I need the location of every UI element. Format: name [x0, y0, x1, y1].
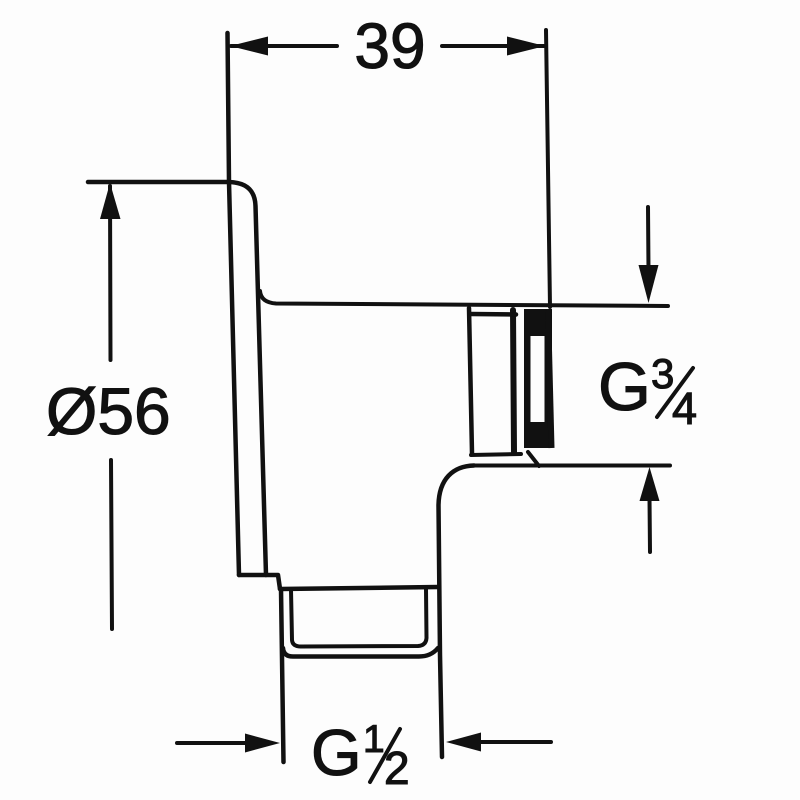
svg-text:1: 1: [363, 718, 385, 761]
svg-text:Ø56: Ø56: [46, 374, 171, 448]
svg-text:G: G: [598, 349, 651, 425]
svg-text:39: 39: [354, 10, 425, 82]
svg-text:3: 3: [651, 350, 674, 397]
svg-text:G: G: [311, 716, 362, 789]
